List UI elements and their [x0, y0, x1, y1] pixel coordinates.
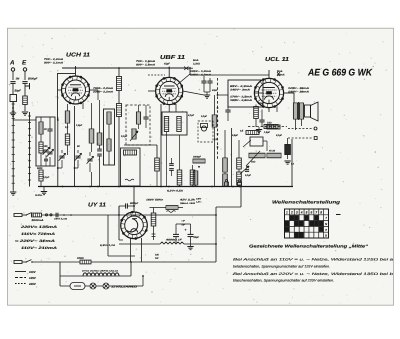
svg-text:7: 7 — [315, 210, 317, 214]
wire mains1b — [42, 214, 120, 216]
svg-text:2: 2 — [290, 210, 293, 214]
ground cathode UCL — [256, 130, 262, 133]
switch contact dots — [217, 94, 219, 96]
svg-text:UY11 UCH11 UBF11 UCL11: UY11 UCH11 UBF11 UCL11 — [82, 270, 118, 273]
UCL11 5mA arrow — [277, 72, 280, 76]
svg-text:70V~ 1,6mA: 70V~ 1,6mA — [136, 60, 155, 63]
small caps row — [201, 80, 206, 82]
wire mains1 right segment — [119, 214, 216, 216]
svg-text:1ℓV/ 2,1Ω: 1ℓV/ 2,1Ω — [54, 218, 67, 221]
svg-text:4: 4 — [300, 210, 303, 214]
svg-text:125V: 125V — [29, 276, 37, 280]
svg-text:125V~ 38mA: 125V~ 38mA — [288, 87, 309, 90]
wire — [24, 105, 26, 112]
svg-text:UY 11: UY 11 — [88, 203, 106, 209]
resistor stack a — [177, 170, 182, 185]
svg-text:110V: 110V — [29, 270, 37, 274]
wire tuning rail — [57, 117, 59, 187]
svg-text:0,1µF: 0,1µF — [121, 135, 128, 138]
mains switch 1 — [26, 213, 32, 215]
choke squiggle — [167, 211, 176, 213]
scale lamp 1 — [90, 283, 96, 289]
IF2 coil b — [177, 117, 181, 132]
svg-text:Wellenschalterstellung: Wellenschalterstellung — [272, 200, 340, 205]
wire volume pot — [238, 140, 240, 158]
grid resistor — [97, 133, 102, 145]
trimmer in coil box — [43, 149, 48, 151]
legend solid 110V — [15, 271, 26, 273]
coil bank box — [36, 117, 55, 166]
wire — [168, 105, 170, 112]
svg-text:2200~ 2,2mA: 2200~ 2,2mA — [92, 91, 114, 94]
AF pot resistor — [249, 153, 265, 158]
resistor below switch — [212, 115, 217, 127]
wire — [91, 103, 93, 129]
svg-text:220V= 135mA: 220V= 135mA — [19, 225, 58, 229]
wire switch col — [224, 130, 226, 158]
svg-text:170V~ 2,5mA: 170V~ 2,5mA — [230, 96, 252, 99]
svg-text:90V~ 1,6mA: 90V~ 1,6mA — [136, 64, 155, 67]
power wire horizontal — [216, 206, 241, 208]
dial lamp line m — [288, 137, 313, 139]
svg-text:42V 2,2k: 42V 2,2k — [178, 199, 196, 202]
scale lamp 2 — [103, 283, 109, 289]
svg-text:Bei Anschluß an 110V = u. ~ Ne: Bei Anschluß an 110V = u. ~ Netze, Wider… — [233, 258, 393, 262]
svg-text:185V~ 2,8mA: 185V~ 2,8mA — [230, 99, 252, 102]
wire — [138, 105, 140, 112]
bus junction dots top — [75, 67, 77, 69]
tapped coil left rail — [12, 102, 14, 191]
fuse 500mA — [32, 213, 42, 217]
mid squiggle — [125, 179, 134, 181]
bandfilter capacitor — [143, 116, 148, 118]
switch resistor upper — [223, 158, 228, 172]
svg-text:1kΩ: 1kΩ — [251, 161, 256, 164]
scale lamp wire — [85, 285, 90, 287]
ground power mid — [187, 247, 193, 250]
tube UCL11 triode-output — [254, 78, 283, 107]
wire E down — [24, 71, 26, 80]
smoothing choke — [166, 206, 178, 210]
tube UCH11 triode-hexode — [62, 76, 90, 104]
svg-text:m.Ku.: m.Ku. — [35, 194, 43, 197]
svg-text:1,5µF: 1,5µF — [76, 124, 83, 127]
svg-text:110V~ 210mA: 110V~ 210mA — [21, 246, 58, 250]
UCH11 anode load resistor — [65, 111, 69, 123]
selector capacitor — [55, 213, 57, 218]
wire IF — [118, 68, 120, 77]
voltage selector dots — [63, 214, 65, 216]
grid resistor 31 — [267, 125, 280, 129]
scale lamp fuse box — [70, 283, 85, 290]
svg-text:A: A — [9, 60, 15, 67]
svg-text:0,1µF: 0,1µF — [43, 176, 50, 179]
small cap near pot — [245, 169, 249, 171]
wire — [12, 102, 14, 109]
dial lamp line o — [288, 128, 313, 130]
IF2 box — [162, 112, 187, 135]
svg-text:8: 8 — [320, 210, 322, 214]
volume potentiometer upper — [237, 158, 242, 169]
svg-text:1,5µF: 1,5µF — [264, 131, 271, 134]
wire — [89, 152, 91, 156]
svg-text:5000: 5000 — [37, 167, 43, 170]
heater filament coils — [83, 273, 95, 276]
wire mid verticals — [156, 171, 158, 187]
ground electrolytic — [284, 161, 290, 164]
IF transformer coil secondary — [117, 104, 122, 117]
loudspeaker — [305, 105, 311, 117]
UCH11 frame wire — [58, 73, 76, 120]
wire osc — [108, 124, 110, 139]
dashed link to diode — [148, 74, 165, 76]
shielded cap circle — [201, 126, 206, 131]
connector symbols top — [225, 182, 229, 186]
screen resistor 20k — [89, 129, 94, 143]
wire — [77, 150, 79, 153]
wire — [49, 157, 51, 166]
wire A down — [12, 71, 14, 80]
svg-text:0,5µF: 0,5µF — [232, 134, 239, 137]
second electrolytic — [173, 233, 179, 235]
svg-text:7000~ 2,2mA: 7000~ 2,2mA — [93, 87, 113, 90]
cap pair mid — [169, 163, 174, 165]
AF pot arrow — [246, 151, 260, 166]
dashed box small — [198, 121, 213, 142]
wire mains2 — [32, 261, 80, 263]
top cap diagonal wire — [178, 74, 190, 84]
wave band coil 1 — [39, 122, 43, 134]
wire UBF bottom left — [160, 104, 162, 187]
vertical lamp loop left — [59, 262, 61, 286]
switch resistor lower — [223, 174, 228, 186]
UBF11 pin stub left — [148, 90, 156, 92]
IF dashed shield box — [126, 105, 150, 145]
UY11 anode wire — [133, 187, 135, 213]
cathode bypass capacitor — [259, 119, 264, 121]
dropper resistor — [151, 213, 156, 226]
scan speckle texture — [9, 29, 387, 305]
svg-text:100: 100 — [44, 145, 49, 148]
wave switch position table — [285, 209, 329, 238]
trimmer capacitor — [47, 151, 52, 153]
svg-text:blaschenschalten, Spannungsums: blaschenschalten, Spannungsumschalter au… — [233, 279, 334, 283]
wire left of cap down — [118, 206, 120, 240]
wire — [227, 95, 229, 110]
svg-text:2000pF: 2000pF — [192, 156, 202, 159]
wire UCL anode to transformer — [284, 92, 294, 94]
svg-text:5: 5 — [306, 210, 308, 214]
wire up to UY11 — [118, 206, 120, 215]
dropping resistor 100 — [80, 260, 91, 264]
svg-text:140V~ 3mA: 140V~ 3mA — [230, 89, 250, 92]
wave switch dashed line — [217, 78, 219, 160]
IF2 coil a — [164, 117, 168, 132]
vertical heater right — [130, 262, 132, 276]
selector contact circles — [45, 214, 47, 216]
resistor 4,7k — [155, 158, 160, 171]
svg-text:105V~ 1,2mA: 105V~ 1,2mA — [190, 70, 211, 73]
AVC dashed wire — [248, 126, 287, 128]
UY11 heater pin wire down — [130, 238, 132, 262]
dash right of table — [336, 214, 341, 216]
svg-text:4000Ω 1F: 4000Ω 1F — [164, 239, 182, 242]
output transformer secondary — [299, 103, 303, 119]
selector block bottom edge — [108, 255, 135, 257]
wire choke — [150, 207, 167, 209]
svg-text:1,2A: 1,2A — [196, 201, 201, 204]
svg-text:2,2kΩ: 2,2kΩ — [192, 63, 200, 66]
svg-text:140V: 140V — [196, 198, 202, 201]
negative feedback resistor — [264, 125, 278, 129]
svg-text:UBF 11: UBF 11 — [160, 55, 185, 61]
cap 2000pF — [193, 159, 205, 163]
svg-text:38mA 1kΩ: 38mA 1kΩ — [180, 202, 195, 205]
svg-text:≈ 220V~ 3ℓmA: ≈ 220V~ 3ℓmA — [15, 239, 56, 243]
svg-text:500mA: 500mA — [32, 219, 44, 222]
wire UBF bottom right — [156, 145, 158, 158]
svg-text:6000µF: 6000µF — [130, 202, 139, 205]
AF coupling coil — [246, 131, 259, 135]
mains plug 1 — [14, 214, 22, 217]
wire mid cluster — [259, 138, 269, 140]
series capacitor antenna — [10, 81, 15, 83]
wave band coil 3 — [39, 170, 43, 181]
right vertical wire — [291, 139, 293, 187]
svg-text:AE G 669 G WK: AE G 669 G WK — [307, 68, 373, 79]
svg-text:85V~ 2,9mA: 85V~ 2,9mA — [230, 85, 252, 88]
wire rail 74 — [74, 106, 76, 187]
screen resistor 41-28 — [267, 153, 281, 158]
svg-text:100Ω: 100Ω — [77, 257, 84, 260]
capacitor C symbol — [25, 83, 30, 89]
scale lamp wire2 — [96, 285, 103, 287]
top cap connector arrow — [184, 67, 189, 71]
tuning gang capacitor 1 — [59, 155, 64, 157]
mid resH 1,5k — [124, 150, 137, 155]
svg-text:0,1µF: 0,1µF — [245, 174, 252, 177]
svg-text:4,1pF: 4,1pF — [187, 114, 195, 117]
IF trim coil — [132, 129, 136, 139]
UY11 cathode wire — [119, 243, 160, 245]
svg-text:D: D — [325, 234, 327, 238]
svg-text:31Ω: 31Ω — [267, 122, 272, 125]
capacitor 6000pF — [125, 203, 127, 208]
svg-text:0,1µF: 0,1µF — [276, 134, 283, 137]
tube UY11 rectifier — [121, 212, 148, 239]
svg-text:41-28: 41-28 — [268, 150, 276, 153]
UBF11 pin stub right — [183, 91, 204, 95]
extra cap stack — [97, 148, 102, 150]
UCL11 top pin wire — [268, 70, 270, 78]
antenna terminal A — [11, 68, 14, 71]
capacitor 5000pF — [22, 81, 27, 83]
wire — [119, 239, 123, 241]
wire — [214, 95, 216, 115]
svg-text:+: + — [185, 228, 187, 232]
svg-text:90V~ 2,1mA: 90V~ 2,1mA — [44, 62, 63, 65]
ground under E — [22, 112, 28, 115]
resistor in earth lead — [23, 96, 28, 105]
UCH11 grid cap wire — [75, 66, 77, 76]
top bus wire — [62, 67, 190, 69]
field coil zigzag — [160, 242, 184, 244]
wire — [49, 117, 51, 129]
padder capacitor — [47, 128, 52, 130]
IF coil tertiary — [136, 112, 140, 124]
junction mid — [198, 166, 200, 168]
wire — [195, 185, 197, 187]
UCL11 left stub — [254, 92, 263, 94]
svg-text:6,3V≈ 0,5A: 6,3V≈ 0,5A — [167, 190, 183, 193]
svg-text:41pF: 41pF — [211, 89, 218, 92]
wave band coil 2 — [39, 142, 43, 153]
tuning gang capacitor 2 — [75, 155, 80, 157]
selector block left edge — [107, 215, 109, 256]
UCL11 voltage box — [228, 80, 263, 107]
coupling capacitor — [225, 109, 230, 111]
svg-text:160V 50Hz: 160V 50Hz — [146, 199, 164, 202]
UCL11 cathode resistor — [254, 107, 259, 119]
wire — [255, 105, 257, 107]
wire — [118, 117, 120, 187]
svg-text:6: 6 — [310, 210, 312, 214]
svg-text:beladenschalten, Spannungsumsc: beladenschalten, Spannungsumschalter auf… — [233, 264, 330, 268]
wire coil column — [40, 117, 42, 122]
svg-text:220V: 220V — [28, 282, 37, 286]
svg-text:- 5F: - 5F — [181, 224, 186, 227]
svg-text:- 1F: - 1F — [181, 220, 186, 223]
resistor stack b — [190, 170, 195, 185]
UCH11 second coil — [65, 134, 69, 145]
ground A branch — [10, 113, 16, 116]
antenna coil box — [10, 95, 17, 102]
tapped coil rail 2 — [29, 112, 31, 187]
bus junction dots — [62, 186, 64, 188]
junction dot — [57, 119, 59, 121]
svg-text:3: 3 — [296, 210, 298, 214]
electrolytic capacitor dark — [285, 145, 291, 155]
wire — [145, 105, 147, 117]
detector box — [250, 137, 263, 146]
potentiometer wiper arrow — [240, 166, 249, 174]
ground below coil box — [41, 192, 47, 195]
svg-text:UCL 11: UCL 11 — [265, 56, 289, 63]
wire A to rail — [12, 108, 14, 112]
svg-text:70V~ 2,2mA: 70V~ 2,2mA — [44, 58, 63, 61]
wire rail to coil box — [13, 119, 36, 121]
wire — [97, 90, 99, 100]
wire UCH11 stub down — [67, 104, 69, 111]
small capacitor in coil box — [44, 158, 48, 160]
UCH11 pin stub right — [90, 89, 99, 91]
wire detector — [263, 140, 267, 142]
svg-text:50pF: 50pF — [15, 90, 22, 93]
output coil above bus — [193, 171, 198, 185]
padder trimmer 2 — [87, 158, 92, 160]
legend dotted 220V — [15, 283, 26, 285]
svg-text:Bei Anschluß an 220V = u. ~ Ne: Bei Anschluß an 220V = u. ~ Netze, Wider… — [233, 272, 393, 276]
wire lamp row right — [109, 285, 143, 287]
wire — [184, 243, 216, 245]
svg-text:41pF: 41pF — [163, 63, 170, 66]
oscillator coil box — [104, 109, 115, 165]
ground left rail bottom — [10, 192, 16, 195]
svg-text:Gezeichnete Wellenschalterstel: Gezeichnete Wellenschalterstellung „Mitt… — [249, 244, 369, 249]
svg-text:1: 1 — [286, 210, 288, 214]
power wire down — [215, 207, 217, 262]
page area with border frame — [8, 28, 394, 305]
svg-text:6mA: 6mA — [193, 59, 199, 62]
power wire down right — [240, 187, 242, 208]
wire left vertical UCL box — [231, 128, 233, 187]
output transformer primary — [293, 103, 297, 119]
wire E branch — [24, 88, 26, 96]
svg-text:0,1µF: 0,1µF — [201, 115, 208, 118]
marks — [152, 234, 156, 236]
svg-text:5000pF: 5000pF — [28, 78, 38, 81]
transformer core — [298, 102, 300, 120]
wire — [153, 208, 155, 214]
wire transformer down — [295, 119, 297, 130]
svg-text:50µF: 50µF — [194, 236, 200, 239]
wire — [61, 150, 63, 153]
svg-text:UCH 11: UCH 11 — [66, 52, 90, 59]
UCH11 pin stub left — [58, 89, 62, 91]
tube UBF11 diode-pentode — [156, 77, 183, 104]
volume potentiometer lower — [237, 172, 242, 185]
svg-text:80µF: 80µF — [258, 102, 264, 105]
wire mains2b — [91, 261, 216, 263]
earth terminal E — [23, 68, 26, 71]
chassis bus wire — [38, 186, 293, 188]
wire — [24, 84, 26, 88]
svg-text:110V= 72ℓmA: 110V= 72ℓmA — [21, 232, 56, 236]
wire mains1 — [25, 213, 31, 215]
oscillator coil — [107, 112, 111, 124]
mains switch 2 — [26, 260, 32, 262]
ground small caps — [204, 95, 210, 98]
heater chain wire — [60, 275, 131, 277]
legend dashed 125V — [15, 277, 26, 279]
UBF11 top cap wire — [168, 67, 170, 78]
wire — [12, 84, 14, 95]
svg-text:12V/0,1A/4ℓΩ: 12V/0,1A/4ℓΩ — [111, 285, 138, 289]
UCH third pin stub — [82, 103, 84, 109]
mains plug 2 — [14, 261, 22, 264]
IF transformer coil primary — [117, 77, 122, 91]
